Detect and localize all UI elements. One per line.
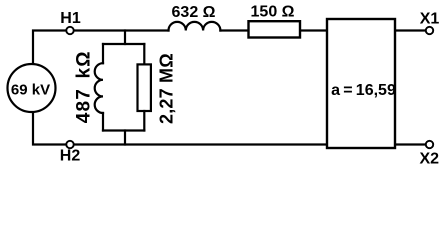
resistor 2,27 Mohm box <box>138 64 151 111</box>
svg-text:69 kV: 69 kV <box>11 82 50 99</box>
wire: secondary lead from transformer box to X1 terminal <box>395 29 426 31</box>
terminal H1 node circle <box>66 27 73 34</box>
wire: top rail from 150-ohm resistor to transformer box <box>300 29 327 31</box>
svg-text:X1: X1 <box>420 11 440 28</box>
wire: left shunt branch lead down to magnetizing coil <box>102 44 104 63</box>
wire: junction stub from top rail down to shunt branch <box>124 31 126 45</box>
wire: right shunt branch lead down to 2,27-Mohm resistor <box>143 44 145 64</box>
resistor 150 ohm box <box>249 21 301 37</box>
wire: secondary lead from transformer box to X2 terminal <box>395 143 426 145</box>
terminal H2 node circle <box>66 141 73 148</box>
inductor 487-kohm magnetizing coil bumps <box>95 63 103 113</box>
transformer box a=16,59 <box>327 19 395 148</box>
svg-text:487 kΩ: 487 kΩ <box>74 50 95 123</box>
wire: bottom rail from source corner to transformer box <box>33 112 327 145</box>
svg-text:a = 16,59: a = 16,59 <box>331 82 396 99</box>
wire: right shunt branch lead from resistor to bottom bar <box>143 111 145 131</box>
svg-text:X2: X2 <box>420 151 440 168</box>
inductor 632 ohm coil bumps <box>169 22 221 31</box>
svg-text:150 Ω: 150 Ω <box>251 3 295 20</box>
wire: shunt branch bottom bar <box>103 129 144 131</box>
wire: top rail from source corner to 632-ohm coil <box>33 31 169 65</box>
wire: shunt branch top bar <box>103 43 144 45</box>
terminal X1 node circle <box>426 27 433 34</box>
terminal X2 node circle <box>426 141 433 148</box>
svg-text:632 Ω: 632 Ω <box>172 4 216 21</box>
wire: junction stub from bottom bar to bottom rail <box>124 131 126 145</box>
svg-text:2,27 MΩ: 2,27 MΩ <box>157 53 177 124</box>
voltage source 69 kV circle <box>8 64 56 112</box>
svg-text:H2: H2 <box>60 147 81 164</box>
wire: left shunt branch lead from coil to bottom bar <box>102 113 104 131</box>
svg-text:H1: H1 <box>60 10 81 27</box>
wire: top rail from coil to 150-ohm resistor <box>220 29 248 31</box>
